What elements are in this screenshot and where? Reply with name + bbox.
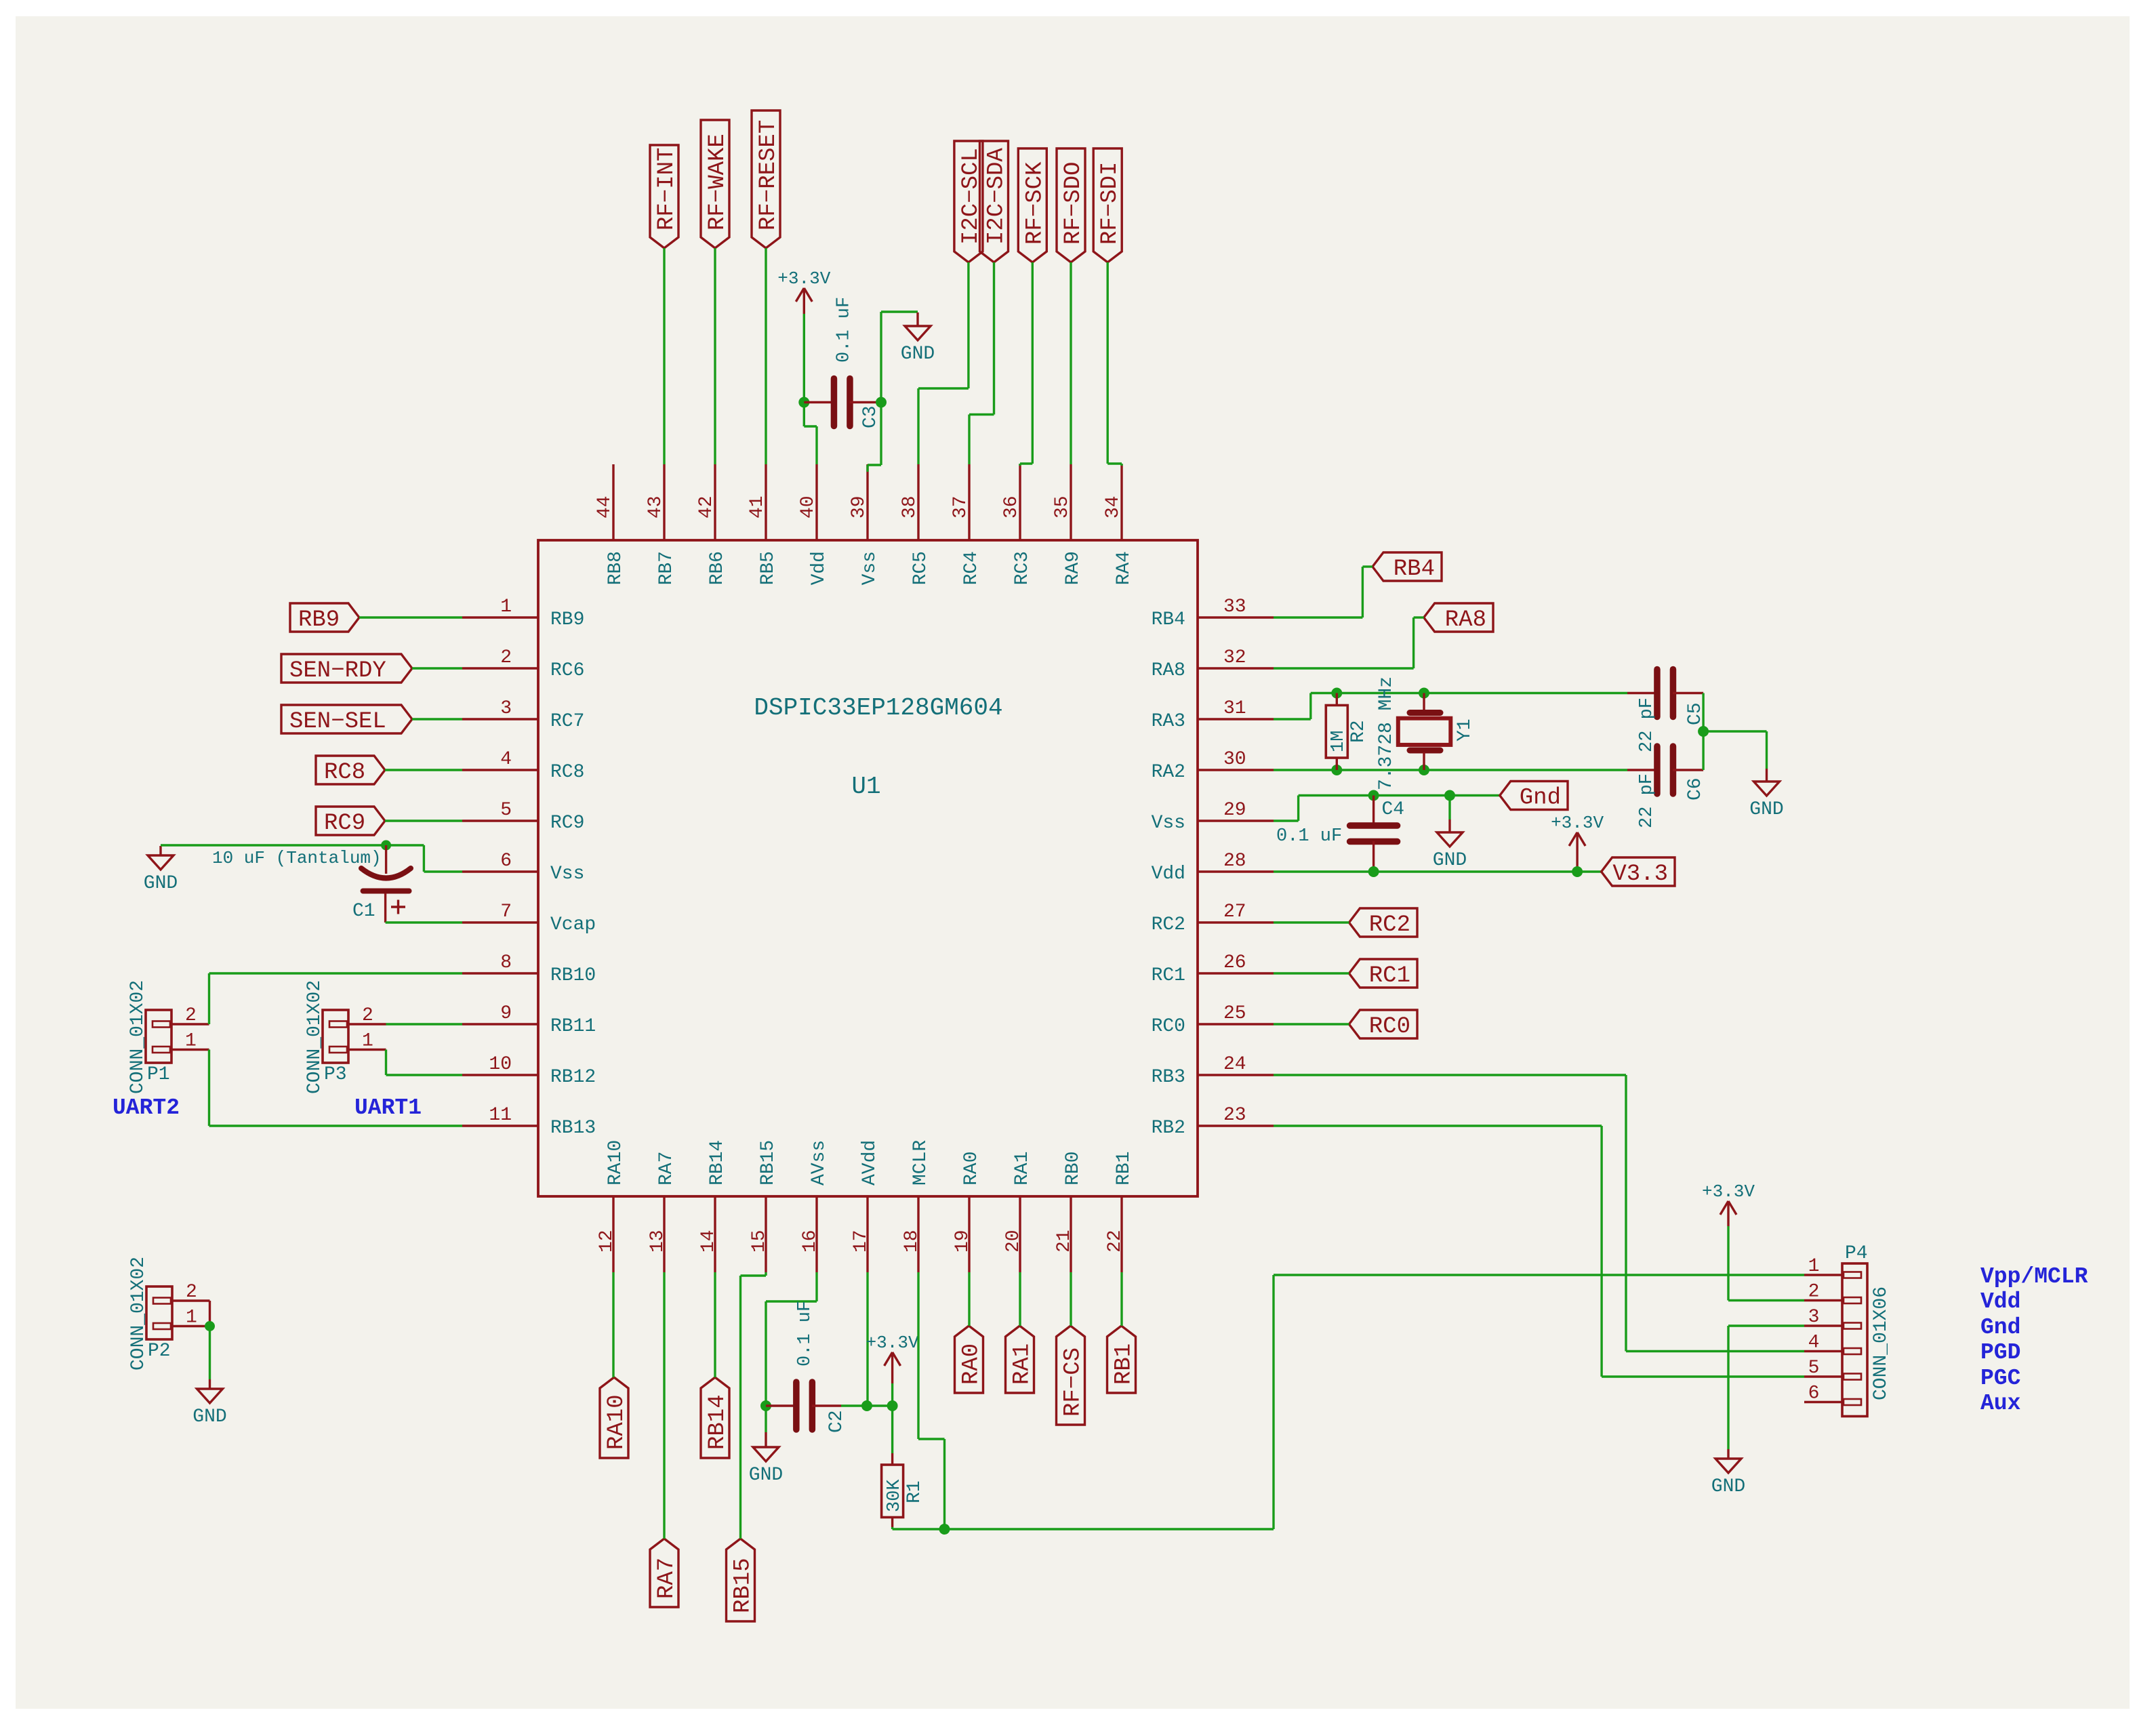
svg-text:9: 9 — [500, 1003, 512, 1024]
U1 pin 21 (RB0) bottom — [1054, 1152, 1084, 1272]
svg-text:RA10: RA10 — [604, 1394, 630, 1450]
svg-text:3: 3 — [1808, 1307, 1820, 1328]
svg-text:Aux: Aux — [1980, 1391, 2020, 1416]
svg-text:RB9: RB9 — [298, 607, 340, 633]
U1 pin 5 (RC9) left — [462, 800, 584, 834]
global label RA8 — [1424, 603, 1493, 633]
svg-text:RA2: RA2 — [1152, 762, 1185, 783]
svg-text:GND: GND — [749, 1465, 783, 1486]
ground GND below P4 — [1711, 1449, 1745, 1497]
svg-text:38: 38 — [899, 495, 920, 519]
net name PGC — [1980, 1366, 2020, 1391]
svg-text:RC1: RC1 — [1152, 965, 1185, 986]
svg-text:RF−SCK: RF−SCK — [1022, 161, 1048, 245]
svg-text:5: 5 — [500, 800, 512, 821]
global label RF-SDI — [1093, 148, 1123, 262]
svg-text:24: 24 — [1223, 1054, 1246, 1075]
wire P3 pin1 to pin10 RB12 — [386, 1050, 463, 1076]
U1 pin 33 (RB4) right — [1152, 596, 1274, 630]
svg-text:P4: P4 — [1845, 1243, 1868, 1264]
svg-text:+3.3V: +3.3V — [1551, 813, 1604, 833]
svg-text:I2C−SDA: I2C−SDA — [984, 148, 1010, 245]
svg-text:4: 4 — [1808, 1333, 1820, 1354]
svg-text:RF−SDO: RF−SDO — [1061, 162, 1086, 245]
wire SEN-RDY to pin2 — [412, 667, 462, 669]
junction +3.3V Vdd rail — [1572, 866, 1583, 877]
svg-text:Y1: Y1 — [1455, 718, 1476, 742]
svg-text:33: 33 — [1223, 596, 1246, 617]
wire +3.3V to Vdd node — [803, 314, 805, 403]
power +3.3V above V3.3 — [1551, 813, 1604, 868]
junction C5/C6 right — [1698, 726, 1709, 737]
svg-text:RF−INT: RF−INT — [654, 148, 680, 230]
svg-text:2: 2 — [185, 1005, 197, 1026]
ground GND right of C5/C6 — [1749, 769, 1783, 820]
U1 pin 11 (RB13) left — [462, 1105, 596, 1139]
U1 pin 22 (RB1) bottom — [1105, 1152, 1135, 1272]
connector P3 (CONN_01X02) — [304, 980, 386, 1094]
svg-text:RB7: RB7 — [656, 551, 677, 585]
junction C4 bottom — [1368, 866, 1379, 877]
U1 pin 25 (RC0) right — [1152, 1003, 1274, 1037]
wire RF-INT to pin43 — [663, 248, 665, 464]
svg-text:C1: C1 — [352, 901, 375, 922]
svg-text:RA0: RA0 — [961, 1152, 982, 1185]
U1 pin 1 (RB9) left — [462, 596, 584, 630]
svg-text:CONN_01X02: CONN_01X02 — [128, 1257, 149, 1371]
svg-text:10 uF (Tantalum): 10 uF (Tantalum) — [212, 848, 382, 868]
net name Aux — [1980, 1391, 2020, 1416]
svg-text:RB9: RB9 — [550, 609, 584, 630]
svg-text:2: 2 — [186, 1282, 197, 1303]
svg-text:SEN−SEL: SEN−SEL — [289, 709, 386, 735]
svg-text:C4: C4 — [1382, 799, 1405, 820]
global label RF-SCK — [1018, 148, 1048, 262]
svg-text:12: 12 — [596, 1230, 617, 1253]
junction R2 bottom — [1331, 765, 1342, 775]
svg-text:AVdd: AVdd — [859, 1140, 880, 1185]
U1 pin 30 (RA2) right — [1152, 749, 1274, 783]
wire pin21 to RF-CS — [1070, 1272, 1072, 1326]
svg-text:1: 1 — [185, 1031, 197, 1052]
svg-text:RC3: RC3 — [1012, 551, 1033, 585]
svg-text:2: 2 — [500, 647, 512, 668]
svg-text:41: 41 — [747, 495, 768, 519]
svg-text:RC9: RC9 — [324, 811, 365, 836]
svg-text:0.1 uF: 0.1 uF — [1276, 826, 1342, 847]
U1 pin 29 (Vss) right — [1152, 800, 1274, 834]
wire pin14 to RB14 — [714, 1272, 716, 1377]
ground GND below C2 — [749, 1432, 783, 1486]
U1 pin 13 (RA7) bottom — [647, 1152, 677, 1272]
svg-text:AVss: AVss — [809, 1140, 830, 1185]
svg-text:RA9: RA9 — [1063, 551, 1084, 585]
svg-text:RC0: RC0 — [1152, 1016, 1185, 1037]
svg-text:32: 32 — [1223, 647, 1246, 668]
wire pin23 RB2 to P4 pin5 PGC — [1274, 1126, 1804, 1377]
svg-text:RB4: RB4 — [1152, 609, 1185, 630]
svg-text:6: 6 — [1808, 1383, 1820, 1404]
svg-text:34: 34 — [1103, 495, 1124, 519]
net name Gnd — [1980, 1315, 2020, 1340]
svg-text:27: 27 — [1223, 901, 1246, 923]
connector P2 (CONN_01X02) — [128, 1257, 210, 1371]
svg-text:C3: C3 — [860, 405, 881, 428]
svg-text:RA10: RA10 — [605, 1140, 626, 1185]
svg-text:RB15: RB15 — [758, 1140, 779, 1185]
svg-text:30K: 30K — [884, 1479, 905, 1512]
U1 pin 20 (RA1) bottom — [1003, 1152, 1033, 1272]
svg-text:RC8: RC8 — [324, 760, 365, 786]
global label I2C-SDA — [980, 141, 1010, 262]
svg-text:GND: GND — [192, 1406, 226, 1427]
power +3.3V above C3 — [777, 268, 830, 314]
svg-text:42: 42 — [696, 495, 717, 519]
svg-text:RC5: RC5 — [910, 551, 931, 585]
wire P1 pin1 to pin11 RB13 — [209, 1050, 463, 1127]
wire RF-WAKE to pin42 — [714, 248, 716, 464]
wire C3 right to pin39 Vss — [868, 403, 881, 472]
junction Y1 bottom — [1419, 765, 1429, 775]
svg-text:22 pF: 22 pF — [1637, 697, 1657, 752]
U1 pin 42 (RB6) top — [696, 464, 728, 585]
wire +3.3V down to P4 pin2 Vdd — [1728, 1226, 1804, 1301]
U1 pin 17 (AVdd) bottom — [851, 1140, 880, 1272]
U1 pin 2 (RC6) left — [462, 647, 584, 681]
svg-text:RC1: RC1 — [1369, 963, 1410, 989]
svg-text:GND: GND — [901, 344, 935, 365]
global label RA1 — [1006, 1326, 1036, 1393]
svg-text:GND: GND — [1433, 850, 1467, 871]
power +3.3V above R1 — [866, 1333, 919, 1383]
junction C1 top — [381, 840, 391, 851]
ground GND below P2 — [192, 1379, 226, 1427]
connector P4 (CONN_01X06) — [1804, 1243, 1892, 1417]
U1 pin 24 (RB3) right — [1152, 1054, 1274, 1088]
svg-text:1M: 1M — [1328, 731, 1349, 752]
global label RC1 — [1349, 959, 1417, 989]
wire RF-SCK to pin36 — [1020, 262, 1032, 466]
wire osc caps to GND — [1703, 731, 1766, 769]
U1 pin 26 (RC1) right — [1152, 952, 1274, 986]
global label RF-WAKE — [701, 120, 731, 248]
svg-text:V3.3: V3.3 — [1612, 861, 1668, 887]
svg-text:28: 28 — [1223, 851, 1246, 872]
wire RF-SDO to pin35 — [1070, 262, 1072, 464]
svg-text:7.3728 MHz: 7.3728 MHz — [1376, 676, 1397, 790]
global label RB9 — [290, 603, 359, 633]
global label Gnd — [1500, 782, 1568, 811]
global label RF-CS — [1057, 1326, 1086, 1425]
svg-text:UART1: UART1 — [354, 1095, 422, 1120]
capacitor C4 0.1 uF — [1276, 796, 1404, 872]
global label RF-SDO — [1057, 148, 1086, 262]
wire C1 bottom to pin7 Vcap — [386, 921, 462, 923]
wire pin26 to RC1 — [1274, 972, 1349, 974]
svg-text:2: 2 — [1808, 1282, 1820, 1303]
svg-text:U1: U1 — [851, 773, 880, 800]
svg-text:RB14: RB14 — [707, 1140, 728, 1185]
svg-text:23: 23 — [1223, 1105, 1246, 1126]
svg-text:RA1: RA1 — [1010, 1343, 1036, 1385]
U1 pin 37 (RC4) top — [950, 464, 982, 585]
ground GND below Gnd rail — [1433, 819, 1467, 871]
svg-text:40: 40 — [798, 495, 819, 519]
svg-text:8: 8 — [500, 952, 512, 973]
U1 pin 34 (RA4) top — [1103, 464, 1135, 585]
U1 pin 10 (RB12) left — [462, 1054, 596, 1088]
svg-text:Vpp/MCLR: Vpp/MCLR — [1980, 1264, 2088, 1289]
svg-text:RA7: RA7 — [654, 1558, 680, 1599]
U1 pin 31 (RA3) right — [1152, 698, 1274, 732]
capacitor C2 0.1 uF — [766, 1301, 867, 1433]
global label I2C-SCL — [954, 141, 984, 262]
svg-text:GND: GND — [1749, 799, 1783, 820]
junction C2 right — [861, 1400, 872, 1411]
svg-text:P3: P3 — [324, 1064, 347, 1085]
wire pin28 Vdd rail — [1274, 870, 1602, 872]
svg-text:3: 3 — [500, 698, 512, 719]
global label RA10 — [600, 1377, 630, 1458]
U1 pin 8 (RB10) left — [462, 952, 596, 986]
svg-text:6: 6 — [500, 851, 512, 872]
wire P2 pin2 to pin1 — [209, 1301, 211, 1326]
svg-text:RB8: RB8 — [605, 551, 626, 585]
svg-text:4: 4 — [500, 749, 512, 770]
wire +3.3V to Vdd rail — [1576, 868, 1578, 872]
svg-text:C2: C2 — [826, 1410, 847, 1433]
wire pin22 to RB1 — [1120, 1272, 1122, 1326]
junction Y1 top — [1419, 688, 1429, 699]
global label RF-RESET — [752, 110, 781, 248]
wire C2 left to GND — [765, 1406, 767, 1432]
net name Vdd — [1980, 1289, 2020, 1314]
U1 pin 4 (RC8) left — [462, 749, 584, 783]
global label RA0 — [955, 1326, 985, 1393]
IC U1 DSPIC33EP128GM604 body — [538, 540, 1198, 1196]
crystal Y1 7.3728 MHz — [1376, 676, 1476, 790]
svg-text:+3.3V: +3.3V — [777, 268, 830, 289]
svg-text:RA4: RA4 — [1114, 551, 1135, 585]
svg-text:DSPIC33EP128GM604: DSPIC33EP128GM604 — [754, 694, 1002, 722]
global label RF-INT — [650, 145, 680, 248]
svg-text:RC9: RC9 — [550, 813, 584, 834]
svg-text:GND: GND — [1711, 1476, 1745, 1497]
global label RB14 — [701, 1377, 731, 1458]
wire RB9 to pin1 — [359, 616, 462, 618]
svg-text:RB5: RB5 — [758, 551, 779, 585]
junction C3 left — [798, 397, 809, 408]
svg-text:RC7: RC7 — [550, 711, 584, 732]
svg-text:0.1 uF: 0.1 uF — [834, 297, 855, 363]
connector P1 (CONN_01X02) — [127, 980, 209, 1094]
svg-text:RF−SDI: RF−SDI — [1097, 162, 1123, 245]
svg-text:RA8: RA8 — [1152, 660, 1185, 681]
svg-text:30: 30 — [1223, 749, 1246, 770]
svg-text:RA8: RA8 — [1445, 607, 1486, 633]
svg-text:Vdd: Vdd — [1980, 1289, 2020, 1314]
svg-text:R1: R1 — [904, 1480, 925, 1503]
svg-text:1: 1 — [186, 1308, 197, 1329]
junction C2 left — [760, 1400, 771, 1411]
svg-text:RB13: RB13 — [550, 1118, 596, 1139]
wire pin29 Vss to Gnd rail — [1274, 796, 1500, 822]
wire C2 right to +3.3V node — [867, 1404, 893, 1406]
svg-text:43: 43 — [645, 495, 666, 519]
U1 pin 39 (Vss) top — [849, 464, 880, 585]
wire node to R1 top — [891, 1406, 893, 1453]
wire pin19 to RA0 — [968, 1272, 970, 1326]
wire C3 right to GND — [881, 312, 918, 403]
svg-text:7: 7 — [500, 901, 512, 923]
svg-text:RB12: RB12 — [550, 1067, 596, 1088]
svg-text:Gnd: Gnd — [1980, 1315, 2020, 1340]
resistor R2 1M — [1326, 693, 1369, 771]
svg-text:Vss: Vss — [550, 864, 584, 885]
capacitor C3 0.1 uF — [804, 297, 881, 428]
svg-text:RB10: RB10 — [550, 965, 596, 986]
wire P4 pin3 Gnd to GND — [1728, 1326, 1804, 1449]
svg-text:Vss: Vss — [859, 551, 880, 585]
ground GND right of C3 — [901, 312, 935, 365]
svg-text:MCLR: MCLR — [910, 1140, 931, 1185]
wire +3.3V to node — [891, 1383, 893, 1406]
wire pin18 MCLR down — [918, 1272, 945, 1529]
global label RB1 — [1107, 1326, 1137, 1393]
U1 pin 38 (RC5) top — [899, 464, 931, 585]
global label RB4 — [1372, 552, 1442, 582]
svg-text:PGC: PGC — [1980, 1366, 2020, 1391]
power +3.3V above P4 — [1702, 1181, 1755, 1226]
global label SEN-RDY — [281, 654, 412, 684]
capacitor C1 (10 uF tantalum) — [212, 845, 411, 923]
U1 pin 44 (RB8) top — [594, 464, 626, 585]
svg-text:1: 1 — [500, 596, 512, 617]
svg-text:25: 25 — [1223, 1003, 1246, 1024]
svg-text:15: 15 — [749, 1230, 770, 1253]
global label RA7 — [650, 1539, 680, 1607]
svg-text:RA1: RA1 — [1012, 1152, 1033, 1185]
svg-text:RB6: RB6 — [707, 551, 728, 585]
svg-text:10: 10 — [489, 1054, 512, 1075]
wire pin27 to RC2 — [1274, 921, 1349, 923]
svg-text:22 pF: 22 pF — [1637, 773, 1657, 828]
svg-text:RB14: RB14 — [705, 1394, 731, 1450]
U1 pin 16 (AVss) bottom — [800, 1140, 830, 1272]
svg-text:P2: P2 — [148, 1341, 171, 1362]
svg-text:RA0: RA0 — [959, 1343, 985, 1385]
U1 pin 28 (Vdd) right — [1152, 851, 1274, 885]
U1 pin 43 (RB7) top — [645, 464, 677, 585]
svg-text:PGD: PGD — [1980, 1340, 2020, 1365]
wire MCLR net to P4 pin1 Vpp — [945, 1275, 1805, 1529]
U1 pin 23 (RB2) right — [1152, 1105, 1274, 1139]
svg-text:1: 1 — [1808, 1256, 1820, 1277]
wire RF-RESET to pin41 — [765, 248, 767, 464]
U1 pin 35 (RA9) top — [1052, 464, 1084, 585]
svg-text:RF−CS: RF−CS — [1061, 1347, 1086, 1417]
svg-text:RB0: RB0 — [1063, 1152, 1084, 1185]
U1 pin 7 (Vcap) left — [462, 901, 596, 935]
wire RF-SDI to pin34 — [1107, 262, 1122, 466]
svg-text:CONN_01X02: CONN_01X02 — [304, 980, 325, 1094]
svg-text:22: 22 — [1105, 1230, 1126, 1253]
wire RC9 to pin5 — [385, 819, 462, 822]
svg-text:RA7: RA7 — [656, 1152, 677, 1185]
wire pin12 to RA10 — [612, 1272, 614, 1377]
svg-text:GND: GND — [144, 873, 178, 894]
svg-text:RF−RESET: RF−RESET — [756, 120, 781, 230]
svg-text:14: 14 — [698, 1230, 719, 1253]
wire R1 bottom to MCLR net — [893, 1527, 945, 1529]
svg-text:17: 17 — [851, 1230, 872, 1253]
wire SEN-SEL to pin3 — [412, 718, 462, 720]
svg-text:RC2: RC2 — [1152, 914, 1185, 935]
U1 pin 41 (RB5) top — [747, 464, 779, 585]
svg-text:39: 39 — [849, 495, 870, 519]
svg-text:Vdd: Vdd — [1152, 864, 1185, 885]
svg-text:RB3: RB3 — [1152, 1067, 1185, 1088]
svg-text:5: 5 — [1808, 1358, 1820, 1379]
svg-text:C6: C6 — [1685, 777, 1706, 800]
wire P3 pin2 to pin9 RB11 — [386, 1023, 463, 1025]
wire Vdd node to pin40 — [804, 403, 817, 465]
junction +3.3V node — [887, 1400, 898, 1411]
wire GND drop — [1448, 796, 1450, 820]
U1 pin 6 (Vss) left — [462, 851, 584, 885]
svg-text:0.1 uF: 0.1 uF — [795, 1301, 815, 1366]
U1 pin 9 (RB11) left — [462, 1003, 596, 1037]
svg-text:RC6: RC6 — [550, 660, 584, 681]
svg-text:16: 16 — [800, 1230, 821, 1253]
svg-text:31: 31 — [1223, 698, 1246, 719]
capacitor C6 22 pF — [1627, 746, 1706, 828]
capacitor C5 22 pF — [1627, 670, 1706, 753]
ground GND left of C1 — [144, 846, 178, 894]
wire pin32 to RA8 — [1274, 617, 1424, 668]
wire pin24 RB3 to P4 pin4 PGD — [1274, 1075, 1804, 1352]
svg-text:37: 37 — [950, 495, 971, 519]
svg-text:RB15: RB15 — [731, 1558, 756, 1613]
svg-text:RC8: RC8 — [550, 762, 584, 783]
svg-text:RC0: RC0 — [1369, 1014, 1410, 1040]
U1 pin 15 (RB15) bottom — [749, 1140, 779, 1272]
wire pin31 RA3 to osc rail — [1274, 693, 1627, 720]
svg-text:19: 19 — [952, 1230, 973, 1253]
wire RC8 to pin4 — [385, 769, 462, 771]
svg-text:R2: R2 — [1348, 720, 1369, 743]
junction C4 top — [1368, 790, 1379, 801]
svg-text:CONN_01X02: CONN_01X02 — [127, 980, 148, 1094]
global label RC2 — [1349, 908, 1417, 938]
global label RC8 — [316, 756, 385, 786]
resistor R1 30K — [882, 1453, 925, 1527]
svg-text:Vcap: Vcap — [550, 914, 596, 935]
U1 pin 3 (RC7) left — [462, 698, 584, 732]
U1 pin 12 (RA10) bottom — [596, 1140, 626, 1272]
svg-text:21: 21 — [1054, 1230, 1075, 1253]
wire pin33 to RB4 — [1274, 567, 1372, 617]
U1 pin 40 (Vdd) top — [798, 464, 830, 585]
svg-text:RF−WAKE: RF−WAKE — [705, 134, 731, 230]
svg-text:13: 13 — [647, 1230, 668, 1253]
label UART2 — [113, 1095, 180, 1120]
U1 pin 36 (RC3) top — [1001, 464, 1033, 585]
svg-text:RB1: RB1 — [1114, 1152, 1135, 1185]
svg-text:2: 2 — [362, 1005, 373, 1026]
wire P1 pin2 to pin8 RB10 — [209, 973, 463, 1024]
U1 pin 27 (RC2) right — [1152, 901, 1274, 935]
